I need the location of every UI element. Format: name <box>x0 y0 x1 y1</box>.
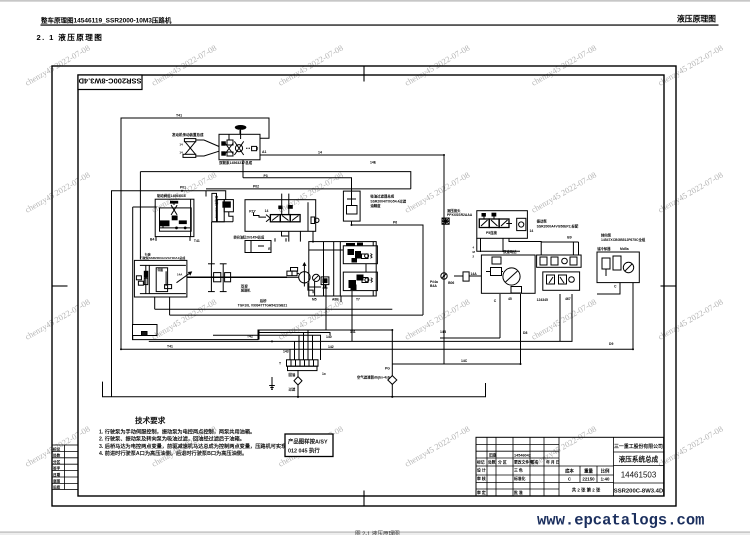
svg-text:双联泵14563217总成: 双联泵14563217总成 <box>218 160 253 165</box>
svg-text:标记: 标记 <box>476 460 485 465</box>
svg-text:处数: 处数 <box>52 453 61 458</box>
svg-text:P5连接: P5连接 <box>486 230 498 235</box>
svg-text:M5: M5 <box>312 298 317 302</box>
header rule <box>41 24 719 25</box>
wire manifold feed a <box>213 335 321 360</box>
svg-text:TGF10L V99947TTGH5422GB21: TGF10L V99947TTGH5422GB21 <box>238 304 288 308</box>
product standard box <box>285 434 333 457</box>
page bottom edge line <box>0 531 750 533</box>
wire filter to vertical <box>352 221 424 315</box>
drawing code box (rotated label) <box>78 75 142 90</box>
svg-text:14A: 14A <box>471 272 478 276</box>
tank symbol <box>269 384 275 390</box>
svg-text:2. 1 液压原理图: 2. 1 液压原理图 <box>37 32 104 42</box>
svg-text:D8: D8 <box>523 331 527 335</box>
wire right drop a <box>440 337 500 339</box>
svg-text:重量: 重量 <box>584 467 593 474</box>
svg-text:设 计: 设 计 <box>477 468 486 473</box>
svg-text:www.epcatalogs.com: www.epcatalogs.com <box>537 512 704 530</box>
svg-text:1:40: 1:40 <box>601 476 610 481</box>
svg-text:T41: T41 <box>167 345 173 349</box>
svg-text:SSR2004/TXG54.4过滤: SSR2004/TXG54.4过滤 <box>370 198 406 203</box>
drum symbol <box>208 264 231 292</box>
svg-text:124345: 124345 <box>537 298 548 302</box>
svg-text:减速机: 减速机 <box>241 287 251 292</box>
vib valve group <box>309 242 378 342</box>
wire loop 4 <box>206 188 411 190</box>
left charge pump block <box>134 260 191 315</box>
frame centering tick bottom <box>363 491 365 507</box>
wire main loop top <box>121 118 269 349</box>
wire left feed <box>112 191 226 397</box>
svg-text:分区: 分区 <box>53 459 61 464</box>
svg-text:14C: 14C <box>461 359 468 363</box>
svg-text:T42: T42 <box>247 335 253 339</box>
wire return second <box>121 283 633 349</box>
wire loop 3 <box>242 160 244 178</box>
wire breather drop <box>391 330 393 376</box>
svg-text:B4: B4 <box>150 238 154 242</box>
svg-text:技术要求: 技术要求 <box>135 415 166 425</box>
frame centering tick top <box>363 66 365 82</box>
svg-text:PG: PG <box>385 367 390 371</box>
svg-text:14546042: 14546042 <box>514 454 531 458</box>
svg-text:SSR200C-8W3.4D: SSR200C-8W3.4D <box>78 77 142 86</box>
steering valve bank <box>245 194 319 242</box>
svg-text:双速马达: 双速马达 <box>502 249 517 254</box>
battery box bottom-left <box>133 325 158 336</box>
svg-text:142: 142 <box>328 345 334 349</box>
wire loop 2 <box>140 172 410 189</box>
wire right drop b <box>392 294 520 364</box>
wire cascade mid <box>259 333 330 336</box>
svg-text:P6: P6 <box>393 221 397 225</box>
svg-text:B06: B06 <box>448 281 454 285</box>
wire aux right <box>454 275 463 277</box>
coupling X symbol <box>183 139 219 158</box>
svg-text:标记: 标记 <box>52 446 61 451</box>
wire tank stub <box>271 377 273 384</box>
wire pump suction left <box>139 172 141 260</box>
svg-text:B4A: B4A <box>430 284 437 288</box>
svg-text:2. 行驶泵、振动泵及转向泵为吸油过滤，回油经过滤后于油箱: 2. 行驶泵、振动泵及转向泵为吸油过滤，回油经过滤后于油箱。 <box>99 435 245 443</box>
svg-text:伺服: 伺服 <box>157 268 164 272</box>
wire return left cascade <box>133 330 393 340</box>
svg-text:振动泵: 振动泵 <box>537 219 548 224</box>
svg-text:P2Y: P2Y <box>249 210 256 214</box>
rear axle motor <box>287 263 315 296</box>
wire manifold drops <box>289 349 291 360</box>
left margin revision table <box>52 445 78 490</box>
wire right drop c <box>559 294 561 341</box>
svg-text:14: 14 <box>318 151 322 155</box>
svg-text:审 核: 审 核 <box>477 476 486 481</box>
svg-text:A1: A1 <box>262 150 267 154</box>
svg-text:143: 143 <box>283 350 289 354</box>
coupling link lines <box>196 140 219 147</box>
breather diamond <box>388 376 397 385</box>
svg-text:PPXXSSR2AAA: PPXXSSR2AAA <box>447 213 473 217</box>
svg-text:三一重工股份有限公司: 三一重工股份有限公司 <box>614 443 663 450</box>
return filter diamond <box>294 377 302 385</box>
inner border frame <box>78 75 664 496</box>
svg-text:14461503: 14461503 <box>621 471 657 480</box>
svg-text:141: 141 <box>350 330 356 334</box>
svg-text:SSR200C-8W3.4D: SSR200C-8W3.4D <box>614 488 663 494</box>
wire bank2 feed <box>477 238 520 251</box>
svg-text:整车原理图14546119_SSR2000-10M3压路机: 整车原理图14546119_SSR2000-10M3压路机 <box>41 15 172 24</box>
svg-text:液压系统总成: 液压系统总成 <box>619 455 659 464</box>
svg-text:转向油缸20/1454总成: 转向油缸20/1454总成 <box>234 235 265 240</box>
aux block right <box>597 252 639 283</box>
title block <box>476 437 664 496</box>
svg-text:油精度: 油精度 <box>370 203 381 208</box>
svg-text:空气滤清器dbjbx-4s6: 空气滤清器dbjbx-4s6 <box>357 375 390 380</box>
travel valve bank right <box>477 211 528 239</box>
svg-text:4. 前进时行驶泵A口为高压油侧，后退时行驶泵B口为高压油: 4. 前进时行驶泵A口为高压油侧，后退时行驶泵B口为高压油侧。 <box>99 449 247 457</box>
svg-text:SSR2000A4VG56EP2,标配: SSR2000A4VG56EP2,标配 <box>537 223 579 228</box>
left grid verticals <box>486 437 488 496</box>
wire servo drain a <box>155 308 393 310</box>
svg-text:批 准: 批 准 <box>514 490 523 495</box>
svg-text:467: 467 <box>565 297 571 301</box>
travel pump unit <box>481 255 535 293</box>
svg-text:审 定: 审 定 <box>477 490 486 495</box>
quick coupler <box>442 218 449 224</box>
svg-text:Md5a: Md5a <box>620 247 629 251</box>
svg-text:14: 14 <box>179 143 183 147</box>
right section rows <box>614 451 664 453</box>
svg-text:三 色: 三 色 <box>514 468 523 473</box>
svg-text:回油: 回油 <box>289 372 296 377</box>
svg-text:制动阀组14563518: 制动阀组14563518 <box>157 193 186 198</box>
vertical label plate <box>212 193 234 263</box>
svg-text:比例: 比例 <box>601 467 610 474</box>
svg-text:14E: 14E <box>370 161 377 165</box>
watermarks chenzy45 2022-07-08 <box>24 44 725 469</box>
svg-text:14A: 14A <box>177 273 183 277</box>
technical requirements notes <box>99 415 312 457</box>
svg-text:14: 14 <box>530 229 534 233</box>
return manifold <box>287 360 319 371</box>
svg-text:45: 45 <box>508 297 512 301</box>
svg-text:T41: T41 <box>176 114 182 118</box>
svg-text:P01: P01 <box>180 186 186 190</box>
svg-text:过滤: 过滤 <box>289 387 296 392</box>
svg-text:旧底: 旧底 <box>489 453 497 458</box>
wire filter drain <box>297 370 299 377</box>
svg-text:年 月 日: 年 月 日 <box>546 460 560 465</box>
svg-text:22150: 22150 <box>582 476 595 481</box>
svg-text:旧底: 旧底 <box>53 484 61 489</box>
svg-text:T7: T7 <box>356 298 360 302</box>
wire pump outlet main <box>260 155 444 364</box>
svg-text:产品图样按A/SY: 产品图样按A/SY <box>288 438 328 446</box>
drawing frame <box>52 66 676 506</box>
svg-text:A8B: A8B <box>332 298 339 302</box>
svg-text:发动机传动装置总成: 发动机传动装置总成 <box>171 132 204 137</box>
svg-text:行驶泵SSR2000A4VG71DA1总成: 行驶泵SSR2000A4VG71DA1总成 <box>139 255 185 260</box>
wire manifold feed b <box>258 330 260 340</box>
svg-text:多路阀14563A08: 多路阀14563A08 <box>215 196 220 219</box>
svg-text:底图: 底图 <box>52 478 61 483</box>
bank2 port labels <box>473 246 476 259</box>
main pump block <box>219 129 260 160</box>
svg-text:P02: P02 <box>253 185 259 189</box>
svg-text:1. 行驶泵为手动伺服控制，振动泵为电控两点控制，两泵共用: 1. 行驶泵为手动伺服控制，振动泵为电控两点控制，两泵共用油箱。 <box>99 428 255 436</box>
svg-text:处数: 处数 <box>487 460 496 465</box>
svg-text:14: 14 <box>265 209 269 213</box>
svg-text:分 区: 分 区 <box>498 460 507 465</box>
svg-text:油冷却器: 油冷却器 <box>597 246 611 251</box>
svg-text:日期: 日期 <box>53 472 61 477</box>
svg-text:P3: P3 <box>264 174 268 178</box>
page top edge line <box>0 0 750 2</box>
wire drum shaft <box>187 276 287 278</box>
svg-text:14B: 14B <box>440 330 447 334</box>
wire bank2 outlet jog <box>509 238 541 255</box>
frame centering tick left <box>52 285 68 287</box>
wire cluster drop <box>340 296 342 302</box>
svg-text:14: 14 <box>179 150 183 154</box>
stacked valve block upper <box>537 255 582 267</box>
svg-text:后桥: 后桥 <box>259 298 267 303</box>
wire bottom main return <box>103 382 486 397</box>
stacked valve block lower <box>543 272 580 290</box>
svg-text:签字: 签字 <box>53 466 61 471</box>
svg-text:共 2 张 第 2 张: 共 2 张 第 2 张 <box>572 487 601 494</box>
middle section <box>559 465 614 467</box>
svg-text:液压原理图: 液压原理图 <box>677 13 716 23</box>
svg-text:T41: T41 <box>194 239 200 243</box>
svg-text:012 045 执行: 012 045 执行 <box>288 447 320 455</box>
left grid horizontals <box>476 443 559 445</box>
svg-text:3. 后桥马达为电控两点变量，前驱减速机马达总成为控制两点: 3. 后桥马达为电控两点变量，前驱减速机马达总成为控制两点变量，压路机可实现四轮… <box>99 442 312 450</box>
svg-text:14547XCBGB512F675C全组: 14547XCBGB512F675C全组 <box>601 237 646 242</box>
svg-text:140: 140 <box>326 335 332 339</box>
wire coupler line <box>443 227 445 272</box>
svg-text:底本: 底本 <box>564 467 574 474</box>
svg-text:吸油过滤器总成: 吸油过滤器总成 <box>370 194 394 199</box>
wire servo drain b <box>170 314 423 316</box>
svg-text:转向泵: 转向泵 <box>601 233 612 238</box>
outer border frame <box>52 66 676 506</box>
svg-text:1x: 1x <box>322 372 326 376</box>
wire stacked feeds <box>572 242 574 255</box>
cooling fan <box>235 126 246 135</box>
svg-text:标准化: 标准化 <box>513 476 526 481</box>
check valve small <box>441 272 469 281</box>
svg-text:D9: D9 <box>609 342 613 346</box>
svg-text:B9: B9 <box>567 236 571 240</box>
svg-text:签名: 签名 <box>530 460 539 465</box>
steering cylinder block <box>245 241 271 253</box>
wire bank2 link <box>480 238 482 252</box>
wire bank1 drops <box>274 238 276 241</box>
wire return third <box>149 294 572 341</box>
wire right block bottom <box>597 283 620 294</box>
frame centering tick right <box>661 285 677 287</box>
